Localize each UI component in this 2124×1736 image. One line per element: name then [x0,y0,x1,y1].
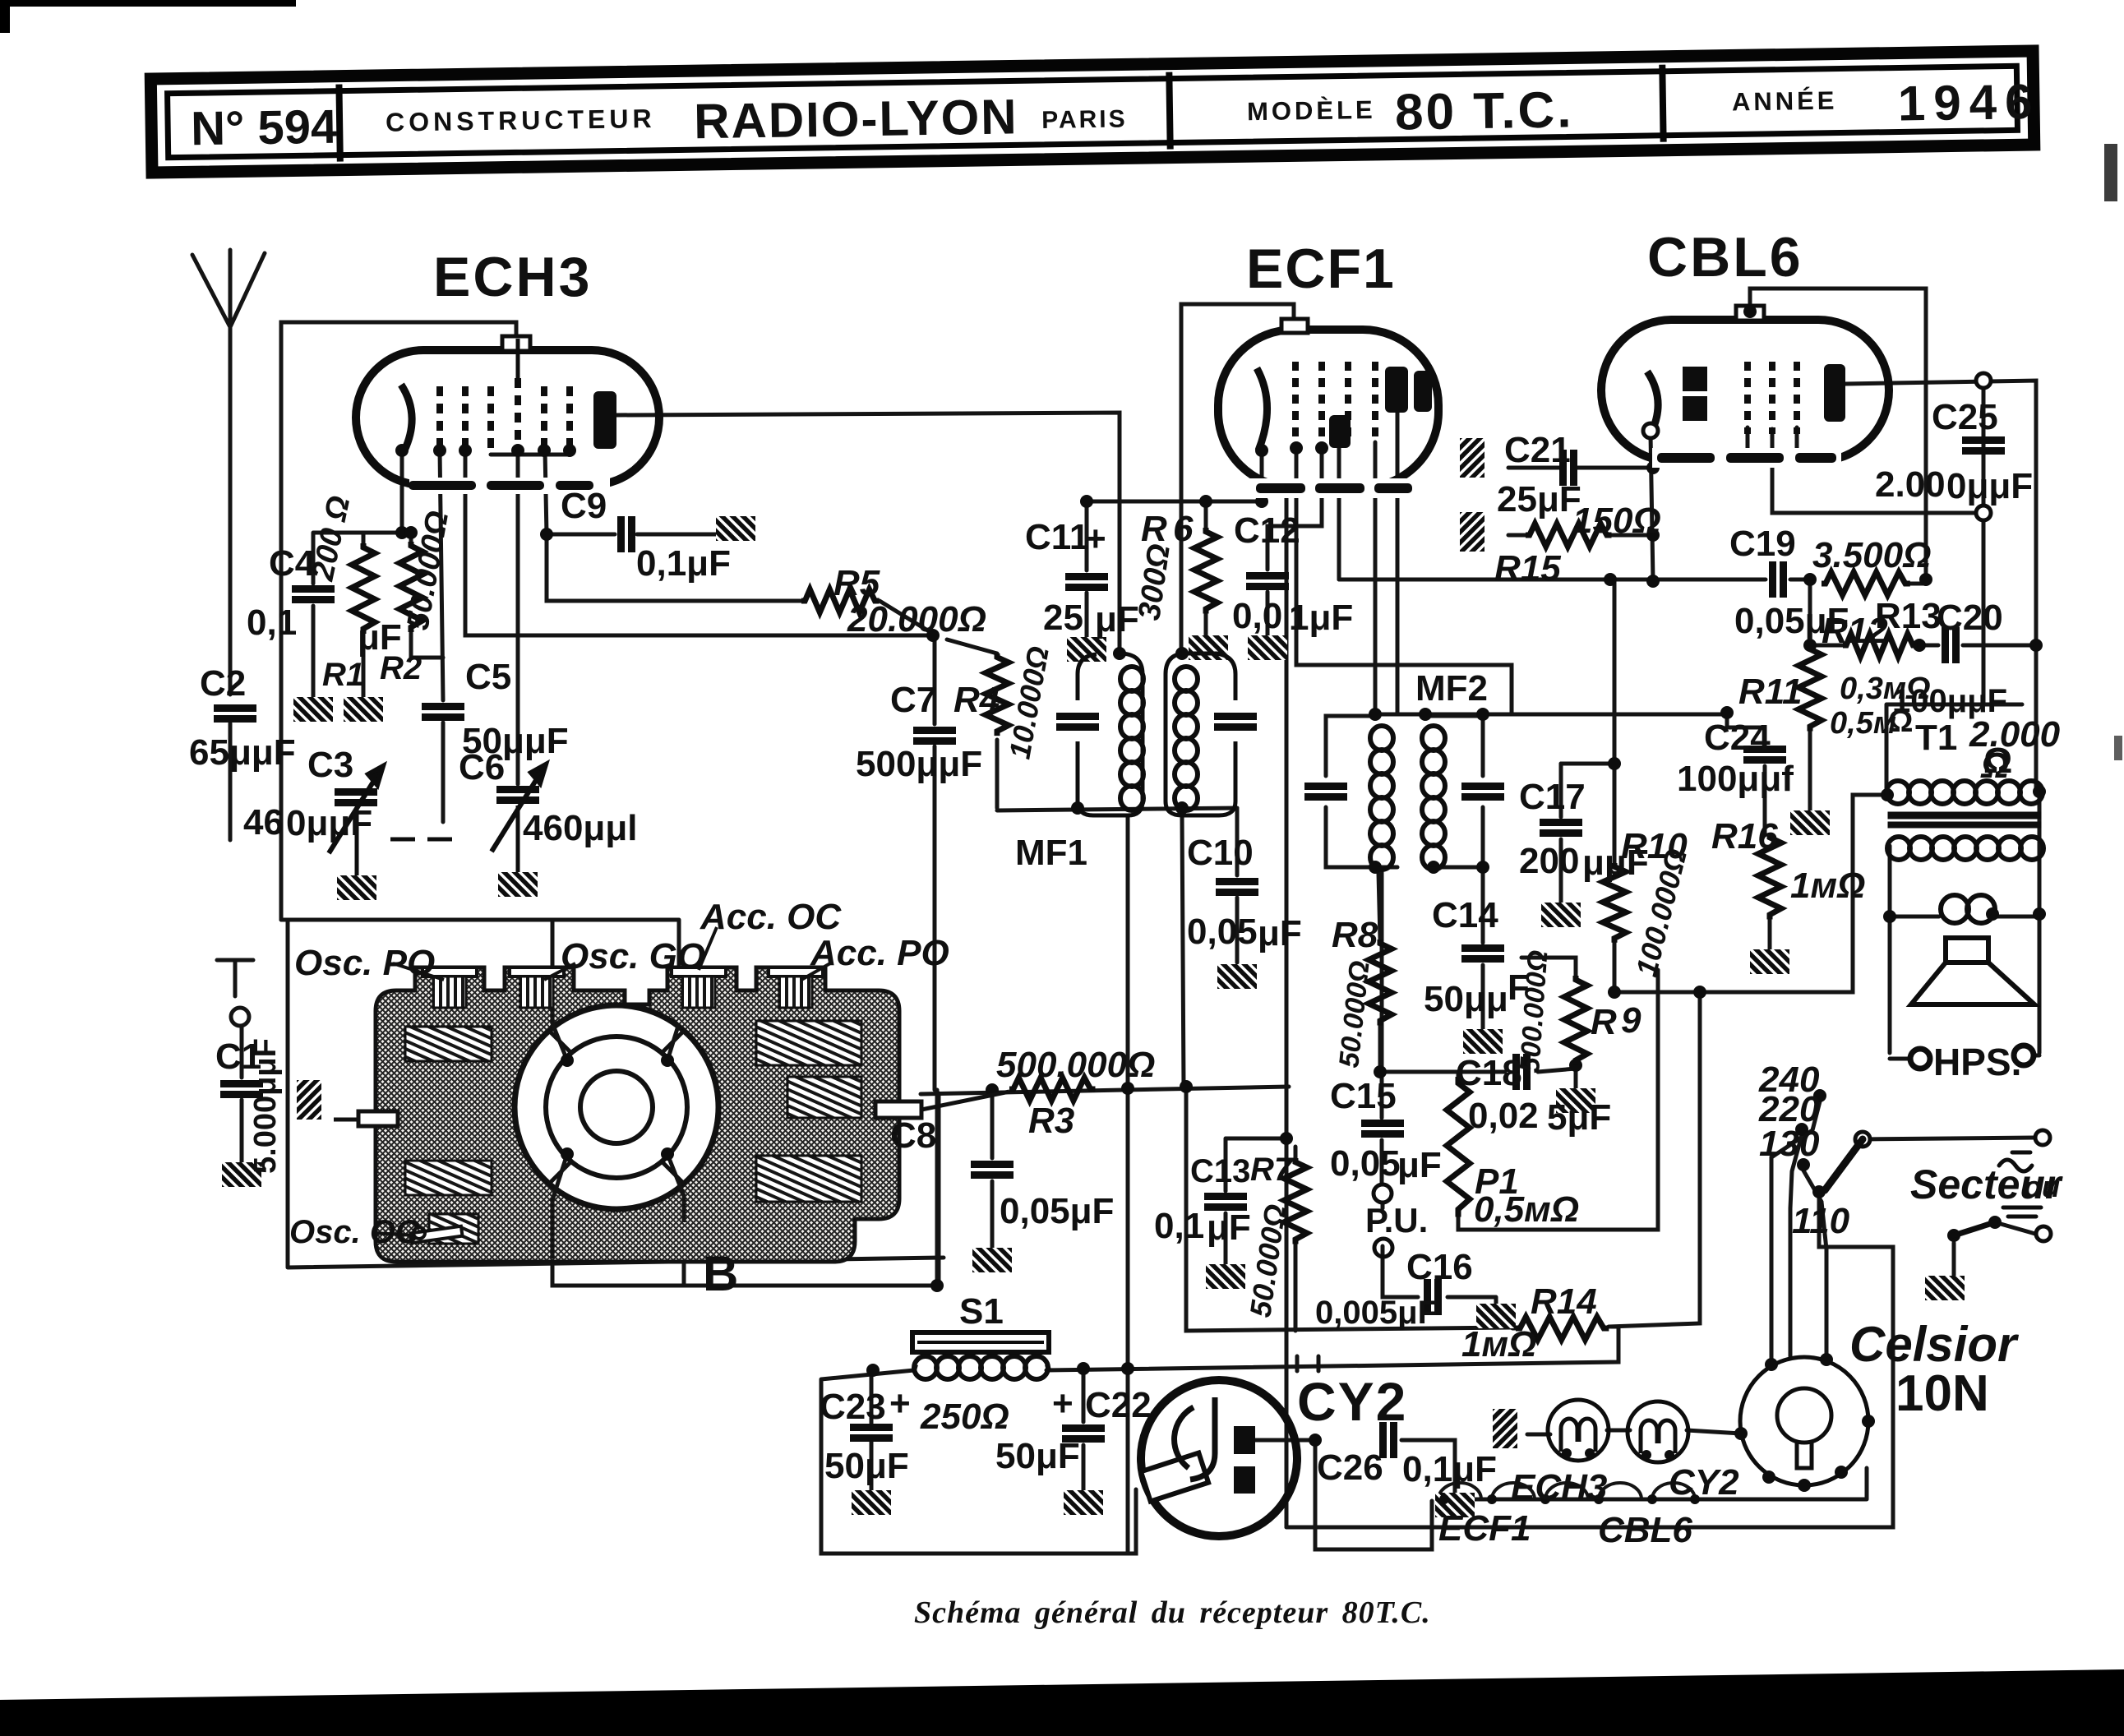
svg-text:0,0: 0,0 [1232,596,1282,636]
svg-text:Schéma général du récepteur 80: Schéma général du récepteur 80T.C. [914,1595,1431,1630]
svg-text:0,05: 0,05 [1330,1143,1401,1184]
svg-text:50μμF: 50μμF [462,721,569,761]
svg-text:C18: C18 [1456,1053,1522,1093]
svg-text:R: R [1591,1002,1617,1042]
svg-text:C9: C9 [561,486,607,526]
svg-text:ECF1: ECF1 [1438,1508,1531,1549]
svg-text:HPS.: HPS. [1933,1041,2021,1083]
svg-text:300Ω: 300Ω [1132,542,1177,622]
svg-text:200 Ω: 200 Ω [306,493,358,584]
svg-text:C19: C19 [1729,524,1796,564]
svg-text:0,1μF: 0,1μF [1402,1449,1497,1489]
svg-text:CONSTRUCTEUR: CONSTRUCTEUR [386,104,656,137]
svg-text:C25: C25 [1932,397,1998,437]
svg-text:80 T.C.: 80 T.C. [1395,81,1574,141]
svg-text:130: 130 [1759,1124,1820,1164]
svg-text:+: + [1052,1383,1074,1424]
svg-text:3.500Ω: 3.500Ω [1812,535,1931,575]
svg-text:2.00: 2.00 [1875,464,1946,505]
svg-text:0,05: 0,05 [1187,912,1258,952]
svg-text:0,02: 0,02 [1468,1096,1539,1136]
svg-text:CY2: CY2 [1297,1371,1407,1432]
svg-text:R8: R8 [1332,915,1378,955]
svg-text:C2: C2 [200,663,246,704]
svg-text:R14: R14 [1531,1281,1597,1322]
svg-text:C22: C22 [1085,1385,1152,1425]
svg-text:500.000Ω: 500.000Ω [996,1045,1155,1085]
svg-text:0,1μF: 0,1μF [636,543,731,584]
svg-text:50.000Ω: 50.000Ω [1333,959,1375,1069]
svg-text:C5: C5 [465,657,511,697]
svg-text:C10: C10 [1187,833,1254,873]
svg-text:C13: C13 [1190,1153,1250,1189]
svg-text:250Ω: 250Ω [920,1397,1009,1437]
svg-text:C11: C11 [1025,517,1089,557]
svg-text:C8: C8 [890,1115,936,1156]
svg-text:μF: μF [1397,1145,1442,1185]
svg-text:T1: T1 [1915,718,1957,758]
svg-text:Celsior: Celsior [1849,1317,2020,1372]
svg-text:5.000μμF: 5.000μμF [248,1038,283,1174]
svg-text:R3: R3 [1028,1101,1074,1141]
svg-text:Osc. GO: Osc. GO [561,936,705,976]
svg-text:R4: R4 [953,680,1000,720]
svg-text:N° 594: N° 594 [191,100,338,156]
svg-text:ANNÉE: ANNÉE [1732,86,1838,117]
svg-text:25μF: 25μF [1497,479,1581,519]
svg-text:Osc. OC: Osc. OC [289,1214,420,1250]
svg-text:RADIO-LYON: RADIO-LYON [694,89,1018,149]
svg-text:C3: C3 [307,745,353,785]
svg-text:Osc. PO: Osc. PO [294,943,435,983]
svg-text:1946: 1946 [1897,74,2040,132]
svg-text:50μμ: 50μμ [1424,979,1508,1019]
svg-text:+: + [1085,519,1106,559]
svg-text:C17: C17 [1519,777,1586,817]
svg-text:6: 6 [1173,509,1194,549]
svg-text:μF: μF [1207,1207,1251,1248]
svg-text:Ω: Ω [1980,746,2009,786]
svg-text:R5: R5 [833,563,880,603]
svg-text:20.000Ω: 20.000Ω [847,599,986,639]
svg-text:0,1: 0,1 [247,603,297,643]
svg-text:R15: R15 [1494,548,1561,589]
svg-text:C21: C21 [1504,430,1571,470]
svg-text:CBL6: CBL6 [1598,1510,1692,1550]
svg-text:65μμF: 65μμF [189,732,296,773]
svg-text:ECH3: ECH3 [1511,1467,1607,1507]
svg-text:P.U.: P.U. [1365,1201,1428,1240]
svg-text:0,3мΩ: 0,3мΩ [1840,672,1931,706]
svg-text:R1: R1 [322,657,364,693]
svg-text:PARIS: PARIS [1041,105,1128,134]
svg-text:CBL6: CBL6 [1647,226,1803,289]
svg-text:0μμF: 0μμF [286,803,372,843]
svg-text:110: 110 [1792,1201,1850,1241]
svg-text:1мΩ: 1мΩ [1461,1324,1536,1364]
svg-text:500μμF: 500μμF [856,744,982,784]
svg-text:100μμf: 100μμf [1677,759,1794,799]
svg-text:460μμl: 460μμl [523,808,637,848]
svg-text:μF: μF [1258,913,1302,953]
svg-text:0,005μF: 0,005μF [1315,1295,1438,1331]
svg-text:+: + [889,1383,911,1424]
svg-text:Acc. OC: Acc. OC [700,897,842,937]
svg-text:ECH3: ECH3 [433,246,592,308]
svg-text:R11: R11 [1738,672,1802,712]
svg-text:50μF: 50μF [824,1446,909,1486]
svg-text:50μF: 50μF [995,1436,1080,1476]
svg-text:B: B [703,1246,738,1301]
svg-text:MF1: MF1 [1015,833,1087,873]
svg-text:C26: C26 [1317,1447,1383,1488]
svg-text:MF2: MF2 [1415,668,1488,709]
svg-text:Acc. PO: Acc. PO [810,933,949,973]
svg-text:C7: C7 [890,680,936,720]
svg-text:150Ω: 150Ω [1572,501,1661,541]
svg-text:C15: C15 [1330,1076,1397,1116]
svg-text:0,1: 0,1 [1154,1206,1204,1246]
svg-text:C23: C23 [820,1387,886,1427]
svg-text:200: 200 [1519,841,1579,881]
svg-text:μF: μF [1095,599,1139,639]
svg-text:1мΩ: 1мΩ [1790,866,1865,906]
svg-text:46: 46 [243,802,284,843]
svg-text:0,5м: 0,5м [1830,706,1896,741]
svg-text:1μF: 1μF [1289,598,1353,638]
svg-text:MODÈLE: MODÈLE [1247,95,1376,126]
svg-text:S1: S1 [959,1291,1004,1332]
svg-text:C20: C20 [1937,598,2003,638]
svg-text:R16: R16 [1711,816,1778,856]
svg-text:R7: R7 [1250,1152,1294,1188]
svg-text:R2: R2 [380,650,422,686]
svg-text:ou: ou [2024,1170,2060,1203]
svg-text:R12: R12 [1822,611,1888,651]
svg-text:5μF: 5μF [1547,1097,1611,1138]
svg-text:10N: 10N [1895,1365,1989,1422]
svg-text:C14: C14 [1432,895,1498,935]
svg-text:C12: C12 [1234,510,1300,551]
svg-text:0,5мΩ: 0,5мΩ [1474,1189,1579,1230]
svg-text:CY2: CY2 [1669,1462,1739,1503]
svg-text:0,05μF: 0,05μF [1000,1191,1114,1231]
svg-text:9: 9 [1621,1000,1641,1041]
svg-text:ECF1: ECF1 [1246,238,1396,300]
svg-text:0μμF: 0μμF [1946,466,2033,506]
svg-text:C16: C16 [1406,1247,1473,1287]
svg-text:25: 25 [1043,598,1083,638]
svg-text:C24: C24 [1704,718,1771,758]
